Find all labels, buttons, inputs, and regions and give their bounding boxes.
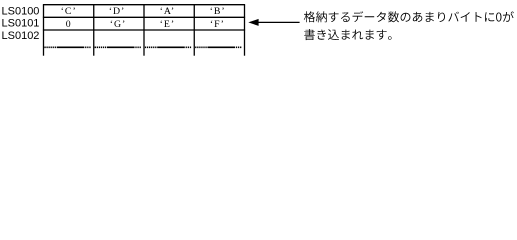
svg-text:‘C’: ‘C’ — [61, 6, 77, 17]
svg-text:LS0100: LS0100 — [2, 5, 40, 17]
svg-text:LS0101: LS0101 — [2, 18, 40, 30]
svg-text:‘A’: ‘A’ — [160, 6, 176, 17]
svg-text:‘G’: ‘G’ — [110, 19, 127, 30]
svg-text:‘E’: ‘E’ — [160, 19, 176, 30]
svg-text:0: 0 — [66, 19, 72, 30]
svg-text:‘B’: ‘B’ — [210, 6, 226, 17]
svg-text:‘D’: ‘D’ — [109, 6, 126, 17]
svg-text:LS0102: LS0102 — [2, 30, 40, 42]
svg-text:‘F’: ‘F’ — [210, 19, 225, 30]
